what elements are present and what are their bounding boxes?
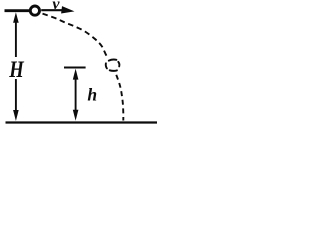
H down arrowhead — [13, 110, 19, 121]
ball at later position (dashed outline) top edge — [109, 59, 117, 60]
svg-text:H: H — [8, 57, 24, 83]
svg-text:h: h — [87, 85, 97, 105]
dashed trajectory lower segment — [116, 75, 123, 121]
H up arrowhead — [13, 12, 19, 22]
H dimension line upper segment — [15, 22, 17, 58]
velocity arrow shaft — [41, 9, 63, 11]
H dimension line lower segment — [15, 79, 17, 111]
ball at later position bottom edge — [110, 69, 117, 72]
velocity arrowhead — [61, 6, 74, 13]
ground line — [6, 121, 158, 123]
h dimension line — [75, 78, 77, 111]
svg-text:v: v — [52, 0, 60, 13]
ball at later position right edge — [118, 62, 119, 67]
h down arrowhead — [73, 110, 79, 121]
platform / table edge line — [5, 9, 30, 12]
h dimension top bar — [64, 66, 86, 68]
h up arrowhead — [73, 69, 79, 80]
ball at later position left edge — [106, 63, 107, 68]
dashed trajectory upper segment — [43, 14, 107, 57]
ball at launch (circle) — [30, 6, 39, 15]
